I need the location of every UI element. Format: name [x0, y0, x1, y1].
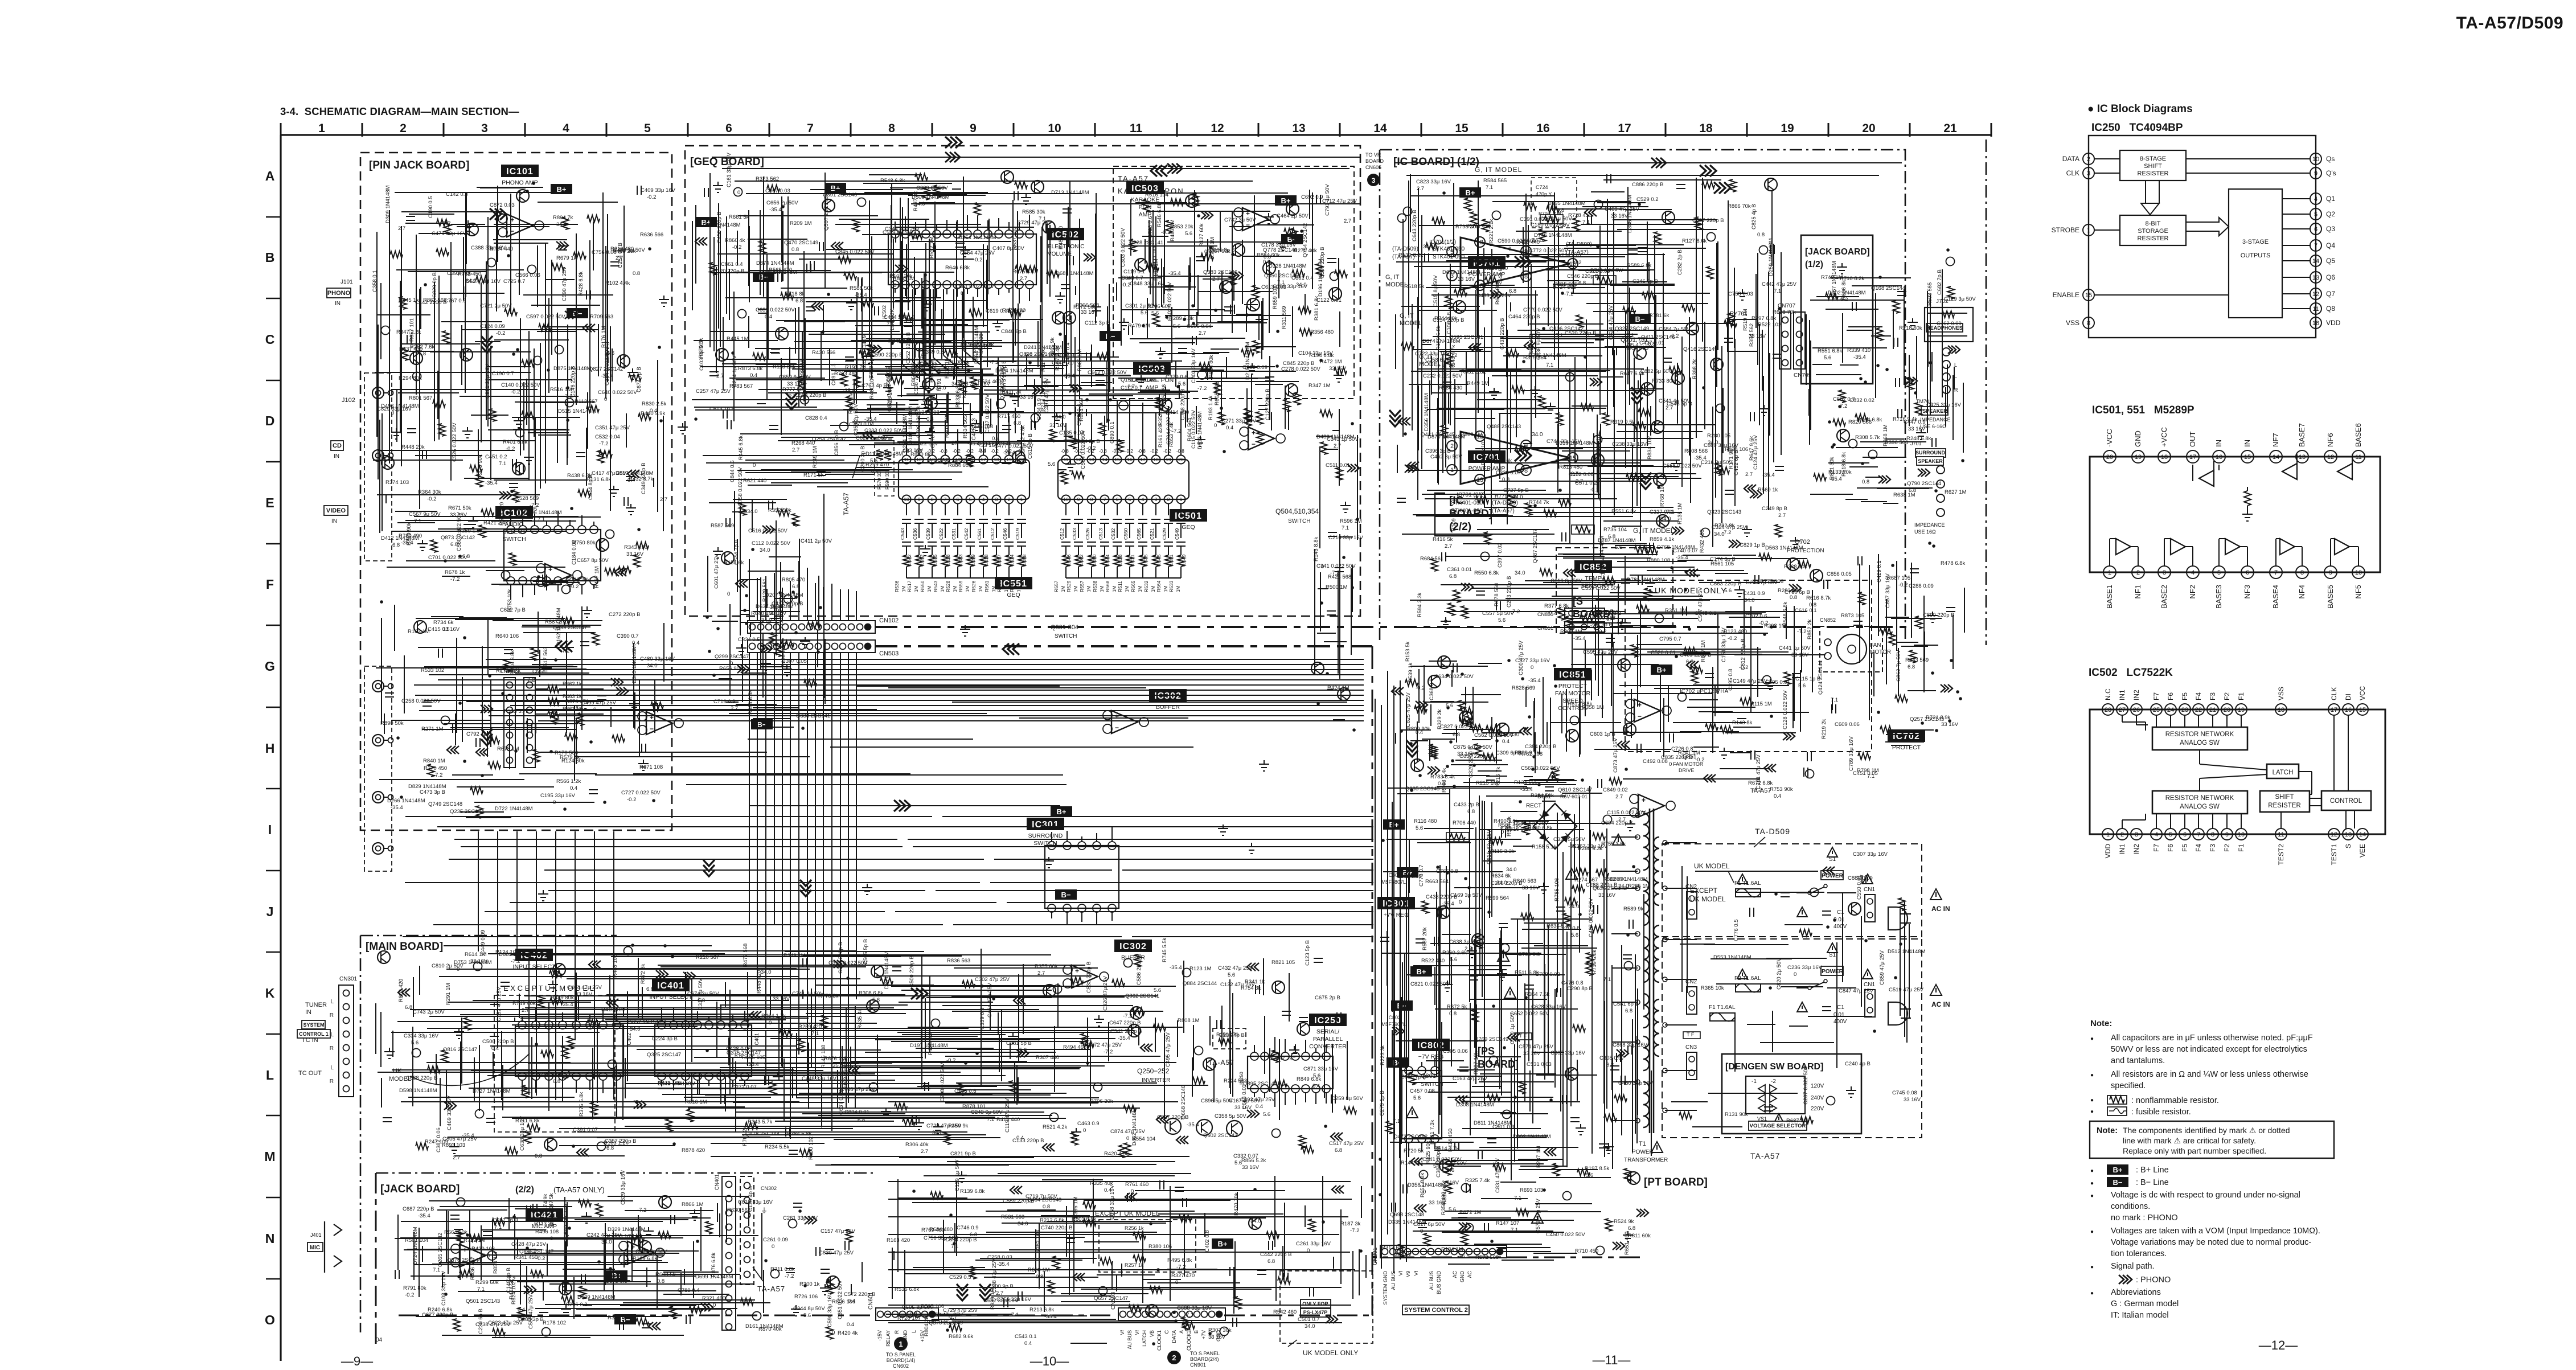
svg-text:33 16V: 33 16V — [470, 958, 488, 965]
svg-text:R859 4.1k: R859 4.1k — [1650, 536, 1675, 543]
svg-text:CLK: CLK — [2330, 687, 2338, 700]
svg-text:IC250 TC4094BP: IC250 TC4094BP — [2091, 122, 2183, 134]
svg-text:D817 1N4148M: D817 1N4148M — [616, 470, 654, 477]
svg-text:[PIN JACK BOARD]: [PIN JACK BOARD] — [369, 159, 469, 171]
svg-text:Q301-304: Q301-304 — [1051, 624, 1078, 631]
svg-text:1M: 1M — [901, 586, 906, 592]
svg-text:34.0: 34.0 — [1515, 570, 1525, 576]
svg-text:0.4: 0.4 — [1502, 739, 1509, 745]
svg-text:T F: T F — [1519, 1033, 1527, 1039]
svg-text:C349 220p B: C349 220p B — [641, 463, 647, 494]
svg-text:B: B — [1193, 1330, 1199, 1334]
svg-text:C450 220p B: C450 220p B — [716, 212, 723, 243]
svg-text:C756 33μ 16V: C756 33μ 16V — [924, 1235, 959, 1241]
svg-text:D358 1N4148M: D358 1N4148M — [1408, 1182, 1446, 1188]
svg-text:G : German model: G : German model — [2111, 1299, 2179, 1309]
svg-text:4: 4 — [563, 122, 569, 135]
svg-text:10: 10 — [2355, 569, 2362, 576]
svg-text:1M: 1M — [1112, 586, 1117, 592]
svg-text:PARALLEL: PARALLEL — [1313, 1036, 1343, 1043]
svg-text:FAN: FAN — [1870, 642, 1881, 649]
svg-text:-35.4: -35.4 — [746, 1061, 759, 1068]
svg-text:0: 0 — [1669, 761, 1672, 768]
svg-text:10: 10 — [1048, 122, 1061, 135]
svg-text:7.1: 7.1 — [433, 1267, 440, 1273]
svg-text:21: 21 — [1943, 122, 1957, 135]
svg-text:6.8: 6.8 — [646, 986, 654, 992]
svg-text:34.0: 34.0 — [760, 547, 770, 553]
svg-text:R621 440: R621 440 — [743, 478, 766, 484]
svg-text:VOLUME: VOLUME — [1048, 251, 1072, 257]
svg-text:2: 2 — [2087, 156, 2090, 163]
svg-text:C539: C539 — [925, 528, 931, 540]
svg-text:CN3: CN3 — [1685, 1044, 1697, 1051]
svg-text:Vf: Vf — [1398, 1271, 1404, 1276]
svg-text:R234 5.5k: R234 5.5k — [765, 1144, 790, 1150]
svg-text:C431 0.9: C431 0.9 — [1743, 590, 1765, 597]
svg-text:G, IT MODEL: G, IT MODEL — [1475, 166, 1522, 174]
svg-text:DATA: DATA — [2062, 155, 2079, 163]
svg-text:C616 0.1: C616 0.1 — [1795, 608, 1817, 614]
svg-text:-VCC: -VCC — [2105, 429, 2114, 447]
svg-text:AC IN: AC IN — [1931, 905, 1950, 913]
svg-text:POWER: POWER — [1822, 969, 1844, 975]
svg-text:5: 5 — [2314, 211, 2317, 218]
svg-text:R224 563: R224 563 — [1224, 1078, 1247, 1084]
svg-text:R744 7k: R744 7k — [1529, 499, 1549, 506]
svg-text:C305 0.06: C305 0.06 — [1443, 1048, 1468, 1055]
svg-text:D768 1N4148M: D768 1N4148M — [1657, 544, 1695, 551]
svg-text:C334 33μ 16V: C334 33μ 16V — [404, 1033, 439, 1039]
svg-text:C112 3p B: C112 3p B — [1085, 320, 1110, 326]
svg-text:RESISTER: RESISTER — [2268, 802, 2301, 809]
svg-text:C519: C519 — [1015, 528, 1020, 540]
svg-text:0.4: 0.4 — [632, 640, 639, 646]
svg-text:UK MODEL ONLY: UK MODEL ONLY — [1655, 586, 1727, 595]
svg-text:-7.2: -7.2 — [1350, 1228, 1359, 1234]
svg-text:F7: F7 — [2152, 844, 2160, 852]
svg-text:0.8: 0.8 — [791, 247, 799, 253]
svg-text:D553 1N4148M: D553 1N4148M — [1713, 954, 1751, 961]
svg-text:[MAIN BOARD]: [MAIN BOARD] — [366, 941, 443, 953]
svg-text:C307 33μ 16V: C307 33μ 16V — [1853, 851, 1888, 858]
svg-text:14: 14 — [1102, 457, 1107, 462]
svg-text:C640 0.022 50V: C640 0.022 50V — [598, 389, 637, 396]
svg-text:C460 1μ 50V: C460 1μ 50V — [1509, 1012, 1516, 1044]
svg-text:R781 6k: R781 6k — [1649, 313, 1670, 319]
svg-text:R565: R565 — [1130, 580, 1136, 592]
svg-text:CN102: CN102 — [879, 617, 899, 624]
svg-text:R107 2.4k: R107 2.4k — [1055, 346, 1061, 371]
svg-text:A: A — [1179, 1330, 1184, 1334]
svg-text:33 16V: 33 16V — [1458, 276, 1475, 282]
svg-text:TUNER: TUNER — [305, 1002, 327, 1008]
svg-text:R726 106: R726 106 — [794, 1294, 818, 1300]
svg-text:F6: F6 — [2167, 692, 2175, 700]
svg-text:SHIFT: SHIFT — [2275, 794, 2294, 801]
svg-text:-0.8: -0.8 — [940, 449, 947, 454]
svg-text:RELAY: RELAY — [885, 1330, 891, 1347]
svg-text:C727 0.022 50V: C727 0.022 50V — [621, 790, 661, 796]
svg-text:Q610 2SC147: Q610 2SC147 — [1558, 787, 1592, 793]
svg-text:C889 0.09: C889 0.09 — [1848, 875, 1873, 881]
svg-text:R197 8.5k: R197 8.5k — [1585, 1166, 1610, 1172]
svg-text:C868 33μ 16V: C868 33μ 16V — [1613, 1042, 1648, 1048]
svg-text:DRIVE: DRIVE — [1679, 768, 1695, 773]
svg-text:0.8: 0.8 — [1862, 479, 1869, 485]
svg-text:17: 17 — [981, 457, 986, 462]
svg-text:R518 6.8k: R518 6.8k — [1841, 452, 1847, 477]
svg-text:C609 0.06: C609 0.06 — [1835, 721, 1860, 728]
svg-text:1M: 1M — [1004, 586, 1009, 592]
svg-text:Q749 2SC148: Q749 2SC148 — [428, 801, 462, 807]
svg-text:C827 220p B: C827 220p B — [1157, 1114, 1188, 1121]
svg-text:UK: UK — [393, 1068, 402, 1074]
svg-text:: B− Line: : B− Line — [2136, 1178, 2169, 1187]
svg-text:R213 6.8k: R213 6.8k — [1029, 1307, 1055, 1313]
svg-text:R710 8.2k: R710 8.2k — [1840, 276, 1865, 282]
svg-text:-35.4: -35.4 — [391, 805, 403, 811]
svg-text:C195 33μ 16V: C195 33μ 16V — [540, 793, 576, 799]
svg-text:-0.2: -0.2 — [1150, 449, 1158, 454]
svg-text:-0.2: -0.2 — [1163, 449, 1171, 454]
svg-text:-35.4: -35.4 — [1442, 901, 1454, 907]
svg-text:-7.2: -7.2 — [1123, 1013, 1132, 1019]
svg-text:6.8: 6.8 — [1608, 534, 1615, 540]
svg-text:O: O — [265, 1312, 275, 1327]
svg-text:no mark : PHONO: no mark : PHONO — [2111, 1213, 2178, 1223]
svg-text:C634 0.022 50V: C634 0.022 50V — [1434, 674, 1474, 680]
svg-text:R636 566: R636 566 — [640, 232, 663, 238]
svg-text:IN1: IN1 — [2118, 690, 2126, 700]
svg-text:E: E — [265, 495, 274, 510]
svg-text:7.1: 7.1 — [499, 461, 506, 467]
svg-text:C300 47μ 25V: C300 47μ 25V — [1518, 640, 1524, 675]
svg-text:1M: 1M — [1086, 586, 1092, 592]
svg-text:C861 0.4: C861 0.4 — [721, 261, 743, 268]
svg-text:6.8: 6.8 — [1449, 573, 1457, 580]
svg-text:R256 1k: R256 1k — [1125, 1225, 1144, 1231]
svg-text:C382 0.06: C382 0.06 — [436, 1127, 442, 1152]
svg-text:D412 1N4148M: D412 1N4148M — [381, 535, 419, 542]
svg-text:B+: B+ — [1657, 666, 1667, 674]
svg-text:R634 6k: R634 6k — [1491, 873, 1511, 879]
svg-text:Abbreviations: Abbreviations — [2111, 1288, 2161, 1297]
svg-text:C433 220p B: C433 220p B — [1499, 318, 1506, 350]
svg-text:5.6: 5.6 — [1450, 957, 1457, 963]
svg-text:1M: 1M — [914, 586, 919, 592]
svg-text:11: 11 — [1064, 457, 1069, 462]
svg-text:IC702: IC702 — [1893, 732, 1920, 741]
svg-text:7.1: 7.1 — [1546, 362, 1553, 368]
svg-text:IC401: IC401 — [754, 1033, 760, 1047]
svg-text:8: 8 — [931, 497, 934, 502]
svg-text:16: 16 — [2345, 707, 2352, 713]
svg-text:R144 1M: R144 1M — [1401, 1160, 1423, 1166]
svg-text:3: 3 — [2163, 569, 2166, 576]
svg-text:B−: B− — [1061, 891, 1071, 899]
svg-text:8: 8 — [1524, 467, 1528, 474]
svg-text:19: 19 — [2135, 454, 2142, 461]
svg-text:D813 1N4148M: D813 1N4148M — [1197, 411, 1203, 449]
svg-text:C133 220p B: C133 220p B — [1012, 1138, 1044, 1144]
svg-text:C128 0.022 50V: C128 0.022 50V — [1782, 690, 1789, 729]
svg-text:19: 19 — [2238, 707, 2245, 713]
svg-text:Q1: Q1 — [2326, 195, 2335, 203]
svg-text:R830 2.5k: R830 2.5k — [642, 401, 667, 407]
svg-text:21: 21 — [2209, 707, 2216, 713]
svg-text:0: 0 — [1307, 1248, 1310, 1254]
svg-text:11: 11 — [2312, 306, 2319, 313]
svg-text:5.6: 5.6 — [1416, 825, 1423, 831]
svg-text:C563 0.022 50V: C563 0.022 50V — [1521, 765, 1560, 772]
svg-text:6.8: 6.8 — [553, 1078, 560, 1085]
svg-text:13: 13 — [2345, 831, 2352, 838]
svg-text:2.7: 2.7 — [1445, 543, 1452, 549]
svg-text:F3: F3 — [2209, 692, 2217, 700]
svg-text:1M: 1M — [1176, 586, 1181, 592]
svg-text:R557: R557 — [1053, 580, 1059, 592]
svg-text:CLOCK2: CLOCK2 — [1186, 1330, 1192, 1351]
svg-text:C124 47μ 25V: C124 47μ 25V — [1753, 434, 1759, 470]
svg-text:6.8: 6.8 — [795, 298, 803, 304]
svg-text:R356 480: R356 480 — [1310, 329, 1334, 335]
svg-text:●: ● — [2090, 1168, 2094, 1174]
svg-text:-0.2: -0.2 — [1728, 635, 1737, 642]
svg-text:RECT: RECT — [1526, 803, 1541, 809]
svg-text:14: 14 — [2273, 454, 2279, 461]
svg-text:19: 19 — [1781, 122, 1794, 135]
svg-text:+: + — [650, 713, 654, 721]
svg-text:Q602 2SC142: Q602 2SC142 — [1203, 1133, 1237, 1139]
svg-text:N.C: N.C — [2104, 688, 2112, 700]
svg-text:R143 8.8k: R143 8.8k — [1313, 536, 1319, 561]
svg-text:CONTROL: CONTROL — [2330, 798, 2362, 805]
svg-text:[JACK BOARD]: [JACK BOARD] — [1805, 247, 1870, 257]
svg-text:1M: 1M — [1125, 586, 1130, 592]
svg-text:5.6: 5.6 — [1498, 617, 1506, 624]
svg-text:3-STAGE: 3-STAGE — [2242, 239, 2269, 245]
svg-text:AC IN: AC IN — [1931, 1000, 1950, 1008]
svg-text:R355 60k: R355 60k — [1035, 963, 1058, 970]
svg-text:34.0: 34.0 — [601, 1239, 612, 1245]
svg-text:7.1: 7.1 — [1039, 216, 1046, 222]
svg-text:C779 0.022 50V: C779 0.022 50V — [1523, 307, 1562, 313]
svg-text:R745 5.5k: R745 5.5k — [1162, 937, 1168, 962]
svg-text:CN302: CN302 — [761, 1186, 777, 1191]
svg-text:C512: C512 — [990, 528, 995, 540]
svg-text:5: 5 — [2169, 831, 2172, 838]
svg-text:C288 0.09: C288 0.09 — [1909, 583, 1934, 589]
svg-text:R538: R538 — [1092, 580, 1098, 592]
svg-text:F2: F2 — [2223, 844, 2231, 852]
svg-text:R548 6.8k: R548 6.8k — [1782, 601, 1789, 626]
svg-text:C359 2μ 50V: C359 2μ 50V — [853, 404, 859, 436]
svg-text:GEQ: GEQ — [1182, 524, 1195, 531]
svg-text:R325 7.4k: R325 7.4k — [1465, 1178, 1490, 1184]
svg-text:C820 2μ 50V: C820 2μ 50V — [1776, 958, 1782, 990]
svg-text:BASE7: BASE7 — [2298, 423, 2306, 447]
svg-text:0.4: 0.4 — [1226, 425, 1233, 431]
svg-text:C725 0.7: C725 0.7 — [503, 278, 526, 285]
svg-text:R589 9k: R589 9k — [1623, 906, 1644, 912]
svg-text:C473 3p B: C473 3p B — [420, 789, 445, 795]
svg-text:C411 2μ 50V: C411 2μ 50V — [801, 538, 832, 544]
svg-text:R283 480: R283 480 — [1778, 588, 1801, 594]
svg-text:R526: R526 — [971, 580, 977, 592]
svg-text:TA-A57: TA-A57 — [842, 493, 850, 515]
svg-text:NF1: NF1 — [2134, 585, 2142, 599]
svg-text:R569 1k: R569 1k — [1758, 487, 1778, 493]
svg-text:16: 16 — [1536, 122, 1549, 135]
svg-text:ANALOG SW: ANALOG SW — [2180, 740, 2220, 746]
svg-text:5.6: 5.6 — [1048, 461, 1055, 467]
svg-text:13: 13 — [1292, 122, 1305, 135]
svg-text:IN2: IN2 — [2132, 844, 2140, 855]
svg-text:R516 104: R516 104 — [1145, 192, 1168, 198]
svg-text:IC501, 551 M5289P: IC501, 551 M5289P — [2092, 404, 2194, 416]
svg-text:C875 0.022 50V: C875 0.022 50V — [1453, 744, 1492, 750]
svg-text:CN605: CN605 — [1365, 165, 1381, 170]
svg-text:C823 33μ 16V: C823 33μ 16V — [1416, 179, 1451, 185]
svg-text:● IC Block Diagrams: ● IC Block Diagrams — [2087, 103, 2193, 115]
svg-text:Vf: Vf — [1119, 1330, 1125, 1335]
svg-text:33 16V: 33 16V — [1049, 423, 1067, 429]
svg-text:0.8: 0.8 — [1043, 1204, 1050, 1210]
svg-text:8: 8 — [1090, 497, 1093, 502]
svg-text:R257 1k: R257 1k — [1125, 1262, 1144, 1268]
svg-text:R878 420: R878 420 — [682, 1147, 705, 1154]
svg-text:C519 47μ 25V: C519 47μ 25V — [1889, 987, 1924, 993]
svg-text:UK MODEL ONLY: UK MODEL ONLY — [1303, 1349, 1358, 1357]
svg-text:0: 0 — [1531, 665, 1533, 671]
svg-text:R153 5k: R153 5k — [1405, 641, 1411, 662]
svg-text:Q8: Q8 — [2326, 305, 2335, 313]
svg-text:C829 1p B: C829 1p B — [1740, 542, 1765, 548]
svg-text:C565: C565 — [1136, 528, 1142, 540]
svg-text:C451 0.2: C451 0.2 — [485, 454, 507, 460]
svg-text:C613 0.03: C613 0.03 — [1261, 284, 1286, 290]
svg-text:CONVERTER: CONVERTER — [1309, 1043, 1347, 1050]
svg-text:C874 47μ 25V: C874 47μ 25V — [1110, 1129, 1146, 1135]
svg-text:0.8: 0.8 — [1502, 477, 1509, 483]
svg-text:20: 20 — [2224, 707, 2230, 713]
svg-text:C791 1μ 50V: C791 1μ 50V — [1324, 184, 1331, 216]
svg-text:R462 1k: R462 1k — [563, 681, 582, 687]
svg-text:-7.2: -7.2 — [1564, 291, 1573, 297]
svg-text:R519 1M: R519 1M — [1742, 309, 1749, 331]
svg-text:R677 1M: R677 1M — [1700, 640, 1707, 662]
svg-text:TC OUT: TC OUT — [298, 1070, 322, 1077]
svg-text:0: 0 — [727, 591, 730, 597]
svg-text:2: 2 — [1008, 497, 1011, 502]
svg-text:C555 47μ 25V: C555 47μ 25V — [528, 1294, 534, 1329]
svg-text:R522 102: R522 102 — [1758, 322, 1781, 328]
svg-text:R568: R568 — [1105, 580, 1110, 592]
svg-text:C740 220p B: C740 220p B — [1041, 1225, 1072, 1231]
svg-text:+: + — [1252, 429, 1256, 437]
svg-text:C726 0.8: C726 0.8 — [1671, 746, 1693, 752]
svg-text:2.7: 2.7 — [1417, 186, 1424, 192]
svg-text:6.8: 6.8 — [1335, 1147, 1342, 1154]
svg-text:Q698 2SC148: Q698 2SC148 — [1390, 1212, 1424, 1218]
svg-text:13: 13 — [1476, 477, 1483, 483]
svg-text:BASE2: BASE2 — [2160, 585, 2168, 609]
svg-text:C249 8p B: C249 8p B — [1762, 506, 1787, 512]
svg-text:9: 9 — [2314, 170, 2317, 177]
svg-text:ANALOG SW: ANALOG SW — [2180, 803, 2220, 810]
svg-text:R311 569: R311 569 — [1281, 306, 1287, 330]
svg-text:R870 40k: R870 40k — [758, 1326, 782, 1332]
svg-text:-7.2: -7.2 — [990, 359, 999, 366]
svg-text:-35.4: -35.4 — [1573, 635, 1586, 642]
svg-text:[IC BOARD] (1/2): [IC BOARD] (1/2) — [1393, 156, 1479, 168]
svg-text:-0.2: -0.2 — [427, 496, 436, 502]
svg-text:C331 5μ 50V: C331 5μ 50V — [1553, 836, 1585, 843]
svg-text:C590 220p B: C590 220p B — [1319, 247, 1326, 278]
svg-text:TA-D509: TA-D509 — [1755, 827, 1790, 836]
svg-text:R646 6.8k: R646 6.8k — [945, 265, 970, 271]
svg-text:13: 13 — [2312, 274, 2319, 281]
svg-text:C847 47μ 25V: C847 47μ 25V — [1839, 988, 1874, 994]
svg-text:16: 16 — [2312, 320, 2319, 327]
svg-text:R533: R533 — [1168, 580, 1174, 592]
svg-text:CN1: CN1 — [1864, 982, 1875, 988]
svg-text:CD: CD — [333, 442, 342, 449]
svg-text:120V: 120V — [1811, 1083, 1824, 1089]
svg-text:SURROUND: SURROUND — [1028, 832, 1063, 839]
svg-text:-0.8: -0.8 — [1099, 449, 1107, 454]
svg-text:R750 80k: R750 80k — [572, 540, 596, 546]
svg-text:C522: C522 — [938, 528, 944, 540]
svg-text:C106 0.8: C106 0.8 — [1446, 312, 1453, 334]
svg-text:(2/2): (2/2) — [515, 1185, 534, 1195]
svg-text:AU BUS: AU BUS — [1127, 1330, 1133, 1350]
svg-text:R801 567: R801 567 — [409, 395, 432, 401]
svg-text:15: 15 — [1455, 122, 1469, 135]
svg-text:0.8: 0.8 — [1790, 594, 1797, 601]
svg-text:R811 60k: R811 60k — [1628, 1233, 1651, 1239]
svg-text:C590 33μ 16V: C590 33μ 16V — [827, 1292, 833, 1327]
svg-text:NF6: NF6 — [2326, 433, 2335, 447]
svg-text:POWER: POWER — [1632, 1149, 1654, 1155]
svg-text:R536: R536 — [894, 580, 900, 592]
svg-text:9: 9 — [2225, 831, 2229, 838]
svg-text:C309 6p B: C309 6p B — [1496, 750, 1521, 756]
svg-text:-0.2: -0.2 — [627, 797, 636, 803]
svg-text:C149 47μ 25V: C149 47μ 25V — [1733, 678, 1768, 684]
svg-text:-35.4: -35.4 — [462, 1133, 474, 1139]
svg-text:17: 17 — [2189, 454, 2196, 461]
svg-text:7: 7 — [807, 122, 814, 135]
svg-text:R872 6k: R872 6k — [640, 963, 646, 984]
svg-text:11: 11 — [1130, 122, 1143, 135]
svg-text:C541 220p B: C541 220p B — [1110, 1028, 1142, 1035]
svg-text:3: 3 — [2087, 170, 2090, 177]
svg-text:●: ● — [2090, 1097, 2094, 1104]
svg-text:PROTECT: PROTECT — [1558, 683, 1588, 690]
svg-text:SYSTEM GND: SYSTEM GND — [1383, 1271, 1388, 1305]
svg-text:C810 2μ 50V: C810 2μ 50V — [432, 963, 463, 969]
svg-text:5.6: 5.6 — [1449, 1207, 1456, 1213]
svg-text:BASE4: BASE4 — [2271, 585, 2280, 609]
svg-text:line with mark ⚠ are critical: line with mark ⚠ are critical for safety… — [2123, 1136, 2256, 1145]
svg-text:1M: 1M — [1151, 586, 1156, 592]
svg-text:1: 1 — [899, 1340, 903, 1348]
svg-text:R630 562: R630 562 — [727, 1207, 750, 1213]
svg-text:F7: F7 — [2152, 692, 2160, 700]
svg-text:C384 220p B: C384 220p B — [1525, 744, 1556, 750]
